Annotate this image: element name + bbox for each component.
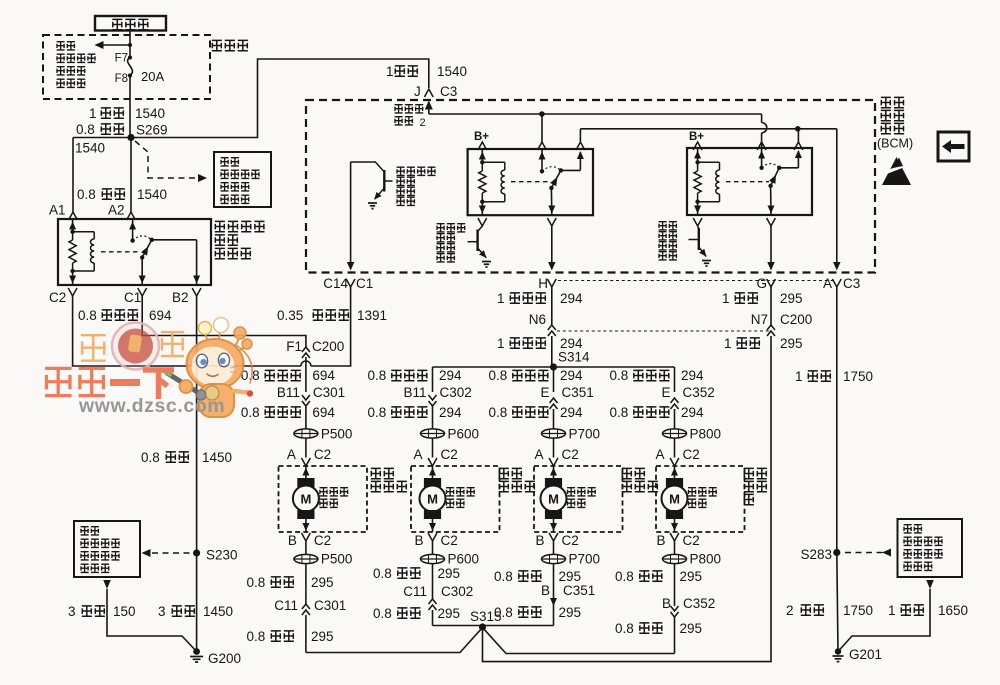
svg-text:B: B <box>541 583 550 598</box>
branch 4 wire, label 0.8 brown-yellow 294 <box>674 367 676 392</box>
branch 1 lower: terminal B / C2 <box>302 533 311 541</box>
splice S269 <box>127 134 134 141</box>
fuse box label (rong si he) <box>212 40 248 50</box>
BCM body control module dashed outline <box>306 100 875 273</box>
svg-text:B: B <box>662 596 671 611</box>
svg-text:294: 294 <box>681 405 704 420</box>
svg-text:0.8: 0.8 <box>373 566 392 581</box>
svg-text:B: B <box>288 533 297 548</box>
svg-text:G: G <box>756 276 767 291</box>
branch 2 lower wires to S315 <box>432 563 434 580</box>
wire transistor to C14/C1 terminal <box>350 162 352 266</box>
svg-text:1650: 1650 <box>938 603 968 618</box>
svg-text:P600: P600 <box>448 427 480 442</box>
svg-text:0.8: 0.8 <box>368 405 387 420</box>
svg-text:694: 694 <box>312 368 335 383</box>
watermark red text weiku yixia <box>45 368 71 395</box>
svg-text:0.8: 0.8 <box>610 368 629 383</box>
relay1 switch common from battery feed <box>541 114 543 142</box>
svg-text:1540: 1540 <box>135 106 165 121</box>
relay coil <box>73 231 95 233</box>
svg-text:0.8: 0.8 <box>610 405 629 420</box>
connector P700 <box>542 429 566 438</box>
relay1 mechanical dashed link <box>511 181 550 183</box>
svg-text:C2: C2 <box>562 533 579 548</box>
svg-text:C11: C11 <box>403 584 427 599</box>
svg-text:1: 1 <box>795 369 803 384</box>
relay coil input A1: arrow and junction <box>72 219 74 232</box>
svg-text:S283: S283 <box>800 547 832 562</box>
svg-text:P700: P700 <box>569 552 601 567</box>
switched feed line across BCM (y=128.8) <box>580 128 836 130</box>
svg-text:C302: C302 <box>441 584 473 599</box>
motor symbol <box>545 478 562 487</box>
svg-text:0.8: 0.8 <box>368 368 387 383</box>
svg-text:C200: C200 <box>312 339 344 354</box>
BCM label: body control module (BCM) <box>881 97 904 107</box>
svg-text:C3: C3 <box>843 276 860 291</box>
branch 4 lower wires to S315 <box>674 563 676 606</box>
svg-text:2: 2 <box>420 117 426 129</box>
svg-text:B11: B11 <box>277 385 300 400</box>
svg-text:C1: C1 <box>356 276 373 291</box>
svg-text:www.dzsc.com: www.dzsc.com <box>78 395 225 417</box>
relay1 resistor <box>481 162 483 171</box>
svg-text:1750: 1750 <box>843 369 873 384</box>
coil-switch mechanical dashed link <box>101 251 141 253</box>
boxed left arrow marker <box>938 132 969 161</box>
dashed reference from S283 to right note box <box>845 552 884 554</box>
wire G to in-line connector N7, label 1 gray 295 <box>770 287 772 325</box>
svg-text:C14: C14 <box>323 276 348 291</box>
svg-text:0.8: 0.8 <box>247 575 266 590</box>
svg-text:B+: B+ <box>474 131 489 143</box>
switch movable arm <box>142 240 152 258</box>
BCM internal relay 1 (passenger door unlock) <box>468 149 593 215</box>
wire H to in-line connector N6, label 1 brown-yellow 294 <box>551 287 553 325</box>
splice S230 <box>193 549 200 556</box>
svg-text:M: M <box>548 491 559 506</box>
svg-text:E: E <box>661 385 670 400</box>
wire S269 down to relay pin A2, label 0.8 orange 1540 <box>130 138 132 213</box>
svg-text:294: 294 <box>560 291 583 306</box>
svg-text:295: 295 <box>680 621 703 636</box>
ground G200 <box>193 648 200 655</box>
relay name label (jiashiyuanzuo kaisuo jidianqi) <box>215 221 265 231</box>
svg-text:1: 1 <box>386 64 394 79</box>
connector P600 (2) <box>421 554 445 563</box>
svg-text:A2: A2 <box>108 203 125 218</box>
branch 2 wire, label 0.8 brown-yellow 294 <box>432 367 434 392</box>
door lock actuator motor box at x=553.5 <box>534 466 623 532</box>
branch arrow to left inside fuse box <box>102 44 130 46</box>
svg-text:A: A <box>413 447 422 462</box>
svg-text:C11: C11 <box>274 598 298 613</box>
relay2 dotted travel arc <box>762 164 780 168</box>
svg-text:1450: 1450 <box>203 604 233 619</box>
motor symbol <box>424 478 441 487</box>
svg-text:0.8: 0.8 <box>76 122 95 137</box>
svg-text:0.8: 0.8 <box>489 405 508 420</box>
splice S314 <box>550 363 557 370</box>
svg-text:P800: P800 <box>690 552 722 567</box>
ESD sensitive device symbol <box>882 157 911 185</box>
svg-text:0.35: 0.35 <box>277 308 303 323</box>
branch 4 lower: terminal B / C2 <box>670 533 679 541</box>
svg-text:295: 295 <box>559 569 582 584</box>
svg-text:N7: N7 <box>751 312 768 327</box>
svg-text:294: 294 <box>439 368 462 383</box>
relay1 coil <box>482 161 505 163</box>
svg-text:C2: C2 <box>683 447 700 462</box>
svg-text:295: 295 <box>780 291 803 306</box>
wire fuse to S269 <box>129 76 131 138</box>
svg-text:B: B <box>535 533 544 548</box>
door lock actuator motor box at x=674.5 <box>656 466 745 532</box>
svg-text:1540: 1540 <box>137 187 167 202</box>
svg-text:0.8: 0.8 <box>78 308 97 323</box>
svg-text:F8: F8 <box>115 73 128 85</box>
wire relay C1 right to connector F1/C200, label 0.8 brown-yellow 694 <box>142 296 306 347</box>
dashed reference from S230 to note box <box>152 552 193 554</box>
coil output to C2 <box>72 271 74 285</box>
svg-text:M: M <box>300 491 311 506</box>
svg-text:P700: P700 <box>569 427 601 442</box>
svg-text:A: A <box>823 276 832 291</box>
door lock actuator motor box at x=305.9 <box>279 466 368 532</box>
door lock position labels <box>371 468 394 478</box>
svg-text:S315: S315 <box>470 609 502 624</box>
svg-text:C301: C301 <box>314 598 346 613</box>
BCM internal relay 2 (all doors lock) <box>687 148 812 215</box>
relay2 coil <box>698 161 720 163</box>
note text: wiring distribution diagram, inside fuse box <box>57 42 75 50</box>
svg-text:B+: B+ <box>689 131 704 143</box>
svg-text:N6: N6 <box>529 312 546 327</box>
svg-text:C351: C351 <box>562 385 594 400</box>
svg-text:295: 295 <box>311 629 334 644</box>
svg-text:1: 1 <box>89 106 97 121</box>
svg-text:694: 694 <box>149 308 172 323</box>
svg-text:B: B <box>656 533 665 548</box>
svg-text:0.8: 0.8 <box>494 569 513 584</box>
relay1 dotted travel arc <box>542 167 561 172</box>
svg-text:1: 1 <box>497 291 505 306</box>
svg-text:H: H <box>538 276 548 291</box>
svg-text:1: 1 <box>724 336 732 351</box>
branch 2 lower: terminal B / C2 <box>428 533 437 541</box>
passenger door unlock output transistor <box>478 218 487 226</box>
label battery power 2 <box>395 105 424 113</box>
relay2 switch wire down to G terminal <box>767 218 776 226</box>
note box: ground distribution diagram (left) <box>74 521 140 577</box>
box: constant power source (chang dian yuan) <box>95 16 166 31</box>
svg-text:C2: C2 <box>49 290 66 305</box>
relay2 output contact up to switched feed <box>779 167 798 169</box>
branch 3 lower wires to S315 <box>553 563 555 625</box>
svg-text:S269: S269 <box>136 123 168 138</box>
ground lead from right note box, label 1 black 1650 <box>926 580 934 589</box>
connector P600 <box>421 429 445 438</box>
svg-text:1: 1 <box>722 291 730 306</box>
svg-text:P500: P500 <box>321 427 353 442</box>
svg-text:S230: S230 <box>206 548 238 563</box>
svg-text:A: A <box>534 447 543 462</box>
svg-text:1391: 1391 <box>357 308 387 323</box>
dashed reference arrow from S269 to distribution note box <box>135 141 198 178</box>
svg-text:0.8: 0.8 <box>615 569 634 584</box>
svg-text:(BCM): (BCM) <box>877 137 913 151</box>
svg-text:C2: C2 <box>314 447 331 462</box>
battery feed 2 inside BCM from J/C3 <box>425 101 433 110</box>
motor symbol <box>666 478 683 487</box>
feed drop with crossover hop into lock relay common <box>761 114 763 123</box>
svg-text:M: M <box>427 491 438 506</box>
relay2 movable arm <box>771 168 780 186</box>
svg-text:0.8: 0.8 <box>615 621 634 636</box>
svg-text:F1: F1 <box>286 339 302 354</box>
svg-text:0.8: 0.8 <box>241 405 260 420</box>
svg-text:P800: P800 <box>690 427 722 442</box>
svg-text:F7: F7 <box>115 53 128 65</box>
connector P800 <box>663 429 687 438</box>
svg-text:3: 3 <box>68 604 76 619</box>
wire from constant power into fuse <box>129 30 131 57</box>
relay1 movable arm <box>551 170 561 188</box>
svg-text:150: 150 <box>113 604 136 619</box>
fuse F7/F8 20A <box>128 55 132 59</box>
svg-text:295: 295 <box>780 336 803 351</box>
watermark: zhao xin pian stamp and characters <box>45 318 253 418</box>
svg-text:A: A <box>655 447 664 462</box>
wire N7 down right side to S315, label 1 gray 295 <box>483 336 772 662</box>
svg-text:294: 294 <box>439 405 462 420</box>
motor symbol <box>297 478 314 487</box>
svg-text:1540: 1540 <box>75 141 105 156</box>
transistor label: passenger door unlock output <box>437 224 466 232</box>
svg-text:1450: 1450 <box>202 450 232 465</box>
BCM terminal C14 / C1 <box>346 279 355 287</box>
svg-text:295: 295 <box>559 605 582 620</box>
fuse box dashed outline <box>43 35 210 99</box>
svg-text:P600: P600 <box>448 552 480 567</box>
svg-text:C3: C3 <box>440 84 457 99</box>
relay2 switch common <box>761 142 763 168</box>
svg-text:295: 295 <box>438 566 461 581</box>
relay1 output contact to top <box>561 169 581 171</box>
svg-text:295: 295 <box>680 569 703 584</box>
svg-text:C1: C1 <box>124 290 141 305</box>
all doors lock output transistor <box>693 218 702 226</box>
fixed contact to B2 <box>152 239 197 241</box>
svg-text:1: 1 <box>497 336 505 351</box>
arm to C1 output <box>141 257 143 285</box>
relay bottom terminals C2 C1 B2 <box>68 288 77 296</box>
svg-text:C301: C301 <box>313 385 345 400</box>
svg-text:C200: C200 <box>780 312 812 327</box>
svg-text:J: J <box>414 84 421 99</box>
svg-text:E: E <box>540 385 549 400</box>
svg-text:S314: S314 <box>558 350 590 365</box>
svg-text:B11: B11 <box>403 385 426 400</box>
door lock actuator motor box at x=432.5 <box>411 466 500 532</box>
in-line connector N6/N7 dashed line <box>557 330 771 332</box>
wire S269 left to A1 branch <box>73 137 131 139</box>
svg-text:M: M <box>669 491 680 506</box>
wire down to relay pin A1 <box>72 138 74 213</box>
relay2 resistor <box>697 162 699 171</box>
BCM bottom terminals H G A/C3 <box>547 279 556 287</box>
svg-text:295: 295 <box>438 606 461 621</box>
svg-text:C2: C2 <box>314 533 331 548</box>
branch 3 lower: terminal B / C2 <box>549 533 558 541</box>
relay switch common A2 <box>132 219 134 241</box>
svg-text:B: B <box>414 533 423 548</box>
note box: wiring distribution diagram (right of A2) <box>214 152 271 207</box>
wire S269 right and up over to BCM J/C3 <box>131 59 429 138</box>
driver seat door unlock output transistor (BCM internal) <box>351 162 385 172</box>
connector P500 (2) <box>294 554 318 563</box>
wire N6 to splice S314, label 1 brown-yellow 294 <box>551 336 553 367</box>
svg-text:P500: P500 <box>321 552 353 567</box>
svg-text:0.8: 0.8 <box>489 368 508 383</box>
switch dotted travel arc <box>133 236 152 241</box>
splice S283 <box>833 549 840 556</box>
svg-text:C351: C351 <box>563 583 595 598</box>
svg-text:294: 294 <box>681 368 704 383</box>
svg-text:A1: A1 <box>49 203 66 218</box>
svg-text:C352: C352 <box>683 596 715 611</box>
label 2 black 1750 <box>837 553 838 652</box>
wire relay B2 down to ground G200, label 0.8 black 1450 <box>196 296 198 652</box>
note box: ground distribution diagram (right) <box>898 519 963 577</box>
svg-text:694: 694 <box>312 405 335 420</box>
ground lead from note box, label 3 black 150 <box>103 580 111 589</box>
svg-text:0.8: 0.8 <box>77 187 96 202</box>
wire relay C2 down, right along y=366, to BCM C14/C1 riser (with crossover hops) <box>73 296 192 366</box>
branch 3 wire, label 0.8 brown-yellow 294 <box>553 367 555 392</box>
relay box: driver seat unlock relay <box>58 219 211 285</box>
svg-text:A: A <box>287 447 296 462</box>
svg-text:295: 295 <box>311 575 334 590</box>
svg-text:0.8: 0.8 <box>141 450 160 465</box>
svg-text:0.8: 0.8 <box>373 606 392 621</box>
svg-text:2: 2 <box>786 603 794 618</box>
connector P700 (2) <box>542 554 566 563</box>
svg-text:20A: 20A <box>141 69 164 84</box>
svg-text:G201: G201 <box>849 647 882 662</box>
watermark mascot <box>164 318 253 418</box>
svg-text:294: 294 <box>560 368 583 383</box>
transistor label: all doors lock output <box>659 222 677 230</box>
relay resistor <box>72 232 74 240</box>
svg-text:C2: C2 <box>683 533 700 548</box>
ground G201 <box>835 648 841 654</box>
branch 1 lower wires to S315 <box>305 563 307 604</box>
svg-text:B2: B2 <box>172 290 189 305</box>
svg-text:0.8: 0.8 <box>247 629 266 644</box>
svg-text:294: 294 <box>560 405 583 420</box>
svg-text:1540: 1540 <box>437 64 467 79</box>
svg-text:C352: C352 <box>683 385 715 400</box>
svg-text:1: 1 <box>888 603 896 618</box>
connector P500 <box>294 429 318 438</box>
svg-text:3: 3 <box>158 604 166 619</box>
S314 distribution bus <box>433 366 554 368</box>
transistor label: driver seat door unlock output <box>397 167 436 175</box>
relay1 switch output wire down to H terminal <box>547 218 556 226</box>
svg-text:G200: G200 <box>208 651 241 666</box>
branch 1 wire, label 0.8 brown-yellow 694 <box>305 357 307 392</box>
svg-text:C302: C302 <box>440 385 472 400</box>
connector P800 (2) <box>663 554 687 563</box>
fine dashed connector line under BCM <box>558 280 833 282</box>
wire A/C3 down, label 1 black 1750 <box>836 287 838 553</box>
svg-text:C2: C2 <box>441 447 458 462</box>
relay2 mechanical dashed link <box>726 181 769 183</box>
switched feed to A/C3 terminal <box>836 129 838 266</box>
svg-text:C2: C2 <box>441 533 458 548</box>
svg-text:C2: C2 <box>562 447 579 462</box>
svg-text:1750: 1750 <box>843 603 873 618</box>
